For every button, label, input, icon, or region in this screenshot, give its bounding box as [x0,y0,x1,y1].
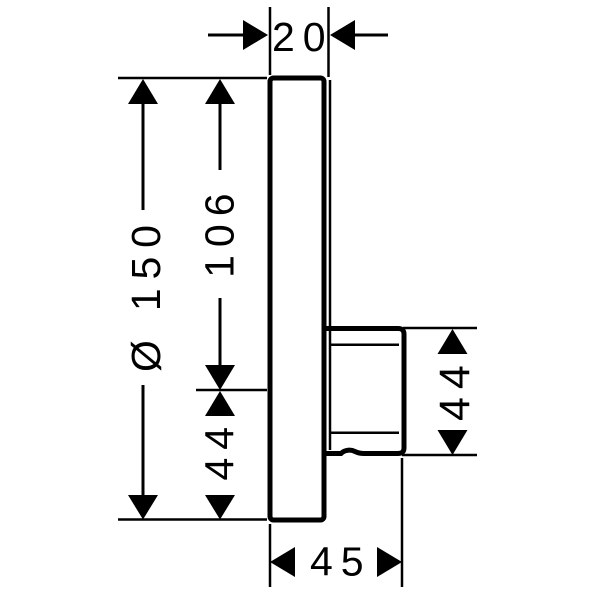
dim 20: left extension line [269,7,272,75]
valve body (side view, thick with break squiggle on bottom) [327,329,405,454]
dim 20: right arrow [330,20,355,50]
dim 44 right: bottom extension line [402,454,477,457]
faceplate front profile line [329,80,332,450]
dim 106: upper line [219,104,222,170]
dim 106: lower line [219,298,222,365]
dim 44 right: up arrow [438,329,468,354]
tick line between 106 and 44 [196,389,267,392]
dim 44 right: down arrow [438,430,468,455]
valve body collar line top [329,344,399,347]
dim 150: down arrow [128,495,158,520]
svg-text:106: 106 [196,185,242,277]
svg-text:20: 20 [272,14,334,60]
svg-text:Ø 150: Ø 150 [123,216,169,372]
dim 20: right tail line [355,34,388,37]
svg-text:44: 44 [431,357,479,421]
dim 150: up arrow [128,79,158,104]
faceplate outline (side view, thick) [270,78,324,520]
dim 45: left arrow [270,547,295,577]
dim 45: right arrow [377,547,402,577]
left top extension line [118,77,267,80]
valve body collar line bottom [329,432,399,435]
dim 20: left tail line [208,34,244,37]
dim 106: up arrow [205,79,235,104]
dim 45: left extension line [269,524,272,587]
dim 44 right: top extension line [403,327,477,330]
dim 44 left: down arrow [205,495,235,520]
svg-text:44: 44 [197,419,243,481]
dim 20: left arrow [243,20,268,50]
dim 45: right extension line [401,458,404,587]
dim 150: upper line [142,104,145,210]
dim 20: right extension line [327,7,330,77]
svg-text:45: 45 [310,539,372,585]
dim 44 left: up arrow [205,391,235,416]
left bottom extension line [118,518,267,521]
dim 150: lower line [142,385,145,495]
dim 106: down arrow [205,365,235,390]
